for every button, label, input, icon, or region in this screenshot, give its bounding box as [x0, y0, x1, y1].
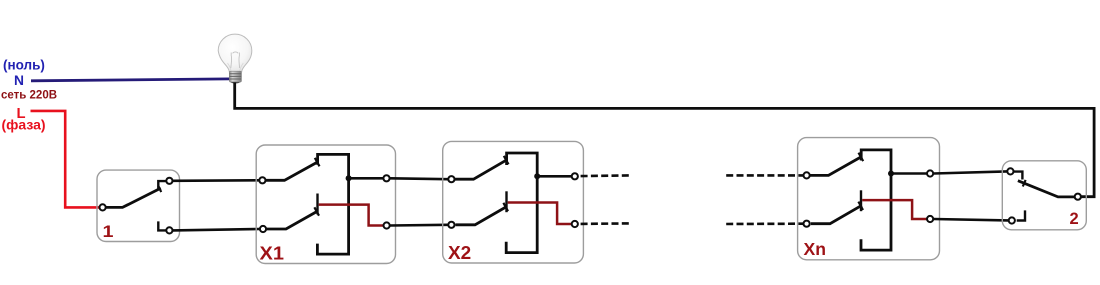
switch 1 terminal down [166, 227, 172, 233]
Xn top blade [810, 156, 862, 175]
wire switch1 to X1 bottom [173, 229, 259, 230]
X2 terminal RB [572, 221, 578, 227]
X2 bottom blade [456, 207, 507, 225]
X1 wire junction to RT [349, 177, 383, 180]
X1 bottom blade tick [314, 207, 319, 215]
svg-text:2: 2 [1070, 210, 1079, 228]
X1 bottom blade [267, 211, 318, 229]
svg-text:(ноль): (ноль) [3, 57, 45, 72]
Xn red link wire [862, 200, 927, 219]
wire phase L to switch 1 (red) [31, 111, 100, 207]
svg-text:N: N [14, 73, 24, 88]
switch 2 top contact [1014, 172, 1023, 180]
wire Xn dashed continuation top [726, 174, 803, 177]
wire Xn to switch2 top [934, 171, 1007, 173]
switch 2 blade tick [1023, 180, 1026, 187]
switch 1 top contact [158, 181, 166, 190]
svg-text:X2: X2 [448, 243, 471, 263]
switch 1 terminal L [100, 204, 106, 210]
Xn top blade tick [859, 153, 864, 161]
switch 2 terminal LB [1009, 217, 1015, 223]
X2 wire junction to RT [537, 175, 571, 178]
Xn junction [888, 171, 894, 177]
Xn terminal RB [927, 216, 933, 222]
wire X2 dashed continuation top [581, 174, 630, 177]
switch 1 enclosure [97, 170, 180, 241]
switch 2 bottom contact hook [1017, 210, 1025, 220]
svg-text:Xn: Xn [804, 239, 827, 259]
X2 terminal LB [448, 222, 454, 228]
wire Xn dashed continuation bottom [726, 222, 803, 225]
switch 2 enclosure [1002, 161, 1086, 230]
crossover switch X1 enclosure [256, 145, 395, 264]
wire X1 to X2 bottom [390, 224, 448, 227]
X2 bottom blade tick [503, 203, 508, 211]
crossover switch Xn enclosure [798, 138, 940, 260]
Xn terminal RT [927, 170, 933, 176]
X2 terminal LT [448, 176, 454, 182]
switch 2 blade [1018, 181, 1074, 197]
svg-text:1: 1 [103, 222, 114, 241]
switch 1 blade tick [158, 186, 161, 193]
svg-text:(фаза): (фаза) [2, 117, 46, 133]
svg-text:X1: X1 [260, 244, 285, 264]
wire lamp to top bus to switch 2 (black) [235, 83, 1094, 197]
X2 crossover frame [506, 153, 537, 253]
Xn bottom blade [811, 205, 862, 223]
X2 bottom contact post [505, 191, 507, 212]
switch 1 bottom contact hook [158, 221, 166, 230]
X2 junction [534, 173, 540, 179]
switch 2 terminal R [1075, 194, 1081, 200]
wire switch1 to X1 top [173, 179, 259, 182]
switch 1 terminal up [166, 178, 172, 184]
X1 terminal LB [260, 226, 266, 232]
switch 2 terminal LT [1007, 168, 1013, 174]
wire X2 dashed continuation bottom [581, 222, 630, 225]
switch 1 common blade [106, 188, 161, 207]
Xn terminal LT [804, 172, 810, 178]
svg-text:сеть 220В: сеть 220В [1, 90, 57, 102]
Xn crossover frame [861, 150, 891, 250]
lamp bulb [218, 34, 252, 83]
node N label (ноль) [3, 57, 45, 88]
wire X1 to X2 top [390, 177, 448, 180]
X1 top blade tick [315, 158, 320, 166]
X1 terminal LT [259, 177, 265, 183]
X1 crossover frame [317, 154, 348, 254]
X1 bottom contact post [316, 194, 318, 215]
Xn bottom contact post [860, 190, 862, 211]
crossover switch X2 enclosure [443, 141, 584, 263]
wire neutral N to lamp (blue) [31, 79, 230, 81]
X2 red link wire [508, 203, 572, 225]
X1 red link wire [319, 205, 384, 226]
node L label (фаза) [2, 106, 46, 133]
Xn bottom blade tick [858, 202, 863, 210]
X1 junction [346, 175, 352, 181]
X1 terminal RB [384, 222, 390, 228]
Xn wire junction to RT [891, 172, 927, 175]
wire Xn to switch2 bottom [934, 219, 1008, 220]
Xn terminal LB [804, 221, 810, 227]
X2 top blade tick [504, 156, 509, 164]
X1 terminal RT [383, 175, 389, 181]
X2 top blade [455, 160, 507, 180]
X1 top blade [266, 162, 318, 181]
X2 terminal RT [572, 173, 578, 179]
